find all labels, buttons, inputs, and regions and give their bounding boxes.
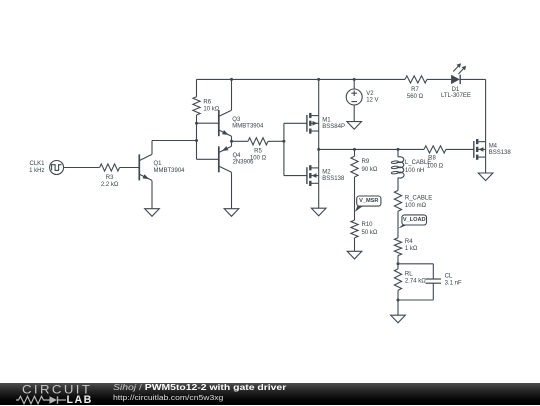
ground V2 bbox=[347, 122, 362, 130]
inductor L_CABLE bbox=[391, 157, 431, 178]
svg-text:R10: R10 bbox=[362, 222, 374, 228]
resistor RL bbox=[394, 269, 426, 290]
svg-text:MMBT3904: MMBT3904 bbox=[232, 124, 264, 130]
resistor R10 bbox=[351, 220, 378, 238]
wire R6 bottom to bases link bbox=[196, 115, 198, 159]
footer url bbox=[113, 393, 223, 402]
wire M2 source to ground bbox=[318, 183, 320, 208]
LED D1 bbox=[441, 63, 471, 99]
resistor R6 bbox=[193, 97, 220, 115]
svg-text:V2: V2 bbox=[366, 91, 374, 97]
svg-text:M1: M1 bbox=[322, 117, 331, 123]
junction R4 / RL / CL bbox=[397, 262, 400, 265]
junction R6 / Q3 base bbox=[195, 122, 198, 125]
wire node to R5 bbox=[232, 140, 249, 142]
ground Q4 collector bbox=[224, 209, 239, 217]
svg-text:Q3: Q3 bbox=[232, 117, 241, 123]
wire L to R_CABLE bbox=[397, 178, 399, 191]
svg-text:L_CABLE: L_CABLE bbox=[405, 160, 431, 166]
transistor Q3 bbox=[219, 110, 264, 136]
wire R10 to ground bbox=[354, 238, 356, 252]
svg-text:R9: R9 bbox=[362, 159, 370, 165]
svg-text:R6: R6 bbox=[203, 99, 211, 105]
wire bottom node to ground bbox=[397, 300, 399, 315]
wire Q1 emitter to ground bbox=[151, 181, 153, 209]
svg-text:3.1 nF: 3.1 nF bbox=[445, 281, 462, 287]
svg-text:12 V: 12 V bbox=[366, 98, 378, 104]
svg-text:90 kΩ: 90 kΩ bbox=[362, 167, 378, 173]
wire Q3 collector to rail bbox=[231, 79, 233, 110]
junction R5 / gate link bbox=[282, 140, 285, 143]
resistor R_CABLE bbox=[394, 190, 432, 211]
ground load bottom bbox=[391, 315, 406, 323]
svg-text:MMBT3904: MMBT3904 bbox=[154, 168, 186, 174]
svg-text:2.2 kΩ: 2.2 kΩ bbox=[101, 182, 119, 188]
svg-text:CLK1: CLK1 bbox=[29, 161, 45, 167]
svg-text:V_MSR: V_MSR bbox=[359, 198, 378, 204]
junction R9 branch bbox=[353, 148, 356, 151]
svg-text:V_LOAD: V_LOAD bbox=[403, 217, 426, 223]
svg-text:100 nH: 100 nH bbox=[405, 168, 424, 174]
footer title bbox=[113, 384, 286, 392]
svg-text:R_CABLE: R_CABLE bbox=[405, 195, 432, 201]
junction L_CABLE branch bbox=[397, 148, 400, 151]
svg-text:560 Ω: 560 Ω bbox=[407, 94, 424, 100]
wire M1 source to rail bbox=[318, 79, 320, 115]
svg-text:Q4: Q4 bbox=[233, 153, 242, 159]
wire R8 to M4 gate bbox=[446, 148, 474, 150]
transistor Q4 bbox=[219, 146, 254, 172]
mosfet M4 BSS138 bbox=[474, 139, 512, 160]
wire top +12V rail bbox=[197, 78, 486, 80]
wire R5 to gate link bbox=[268, 140, 284, 142]
svg-text:10 kΩ: 10 kΩ bbox=[203, 107, 219, 113]
wire R3 to Q1 base bbox=[120, 167, 140, 169]
ground R10 bbox=[347, 251, 362, 259]
wire Q1 collector bbox=[152, 141, 197, 155]
svg-text:2.74 kΩ: 2.74 kΩ bbox=[405, 278, 426, 284]
svg-text:BSS84P: BSS84P bbox=[322, 124, 345, 130]
wire gate link vertical bbox=[283, 123, 285, 175]
wire R4 to node bbox=[397, 256, 399, 264]
wire Q4 collector to ground bbox=[231, 172, 233, 208]
resistor R8 bbox=[424, 146, 446, 170]
svg-text:R4: R4 bbox=[405, 239, 413, 245]
wire R6 top bbox=[196, 79, 198, 96]
wire V2 to ground bbox=[353, 105, 355, 122]
wire M2 gate bbox=[284, 175, 307, 177]
junction RL / CL bottom bbox=[397, 299, 400, 302]
wire R9 to R10 bbox=[354, 177, 356, 220]
junction V2 / rail bbox=[353, 78, 356, 81]
resistor R3 bbox=[100, 164, 120, 188]
svg-text:1 kΩ: 1 kΩ bbox=[405, 246, 418, 252]
junction M1 source / rail bbox=[317, 78, 320, 81]
ground M2 source bbox=[311, 208, 326, 216]
junction Q1 collector bbox=[195, 139, 198, 142]
svg-text:D1: D1 bbox=[452, 87, 460, 93]
resistor R5 bbox=[248, 138, 268, 162]
svg-text:Q1: Q1 bbox=[154, 161, 163, 167]
ground Q1 emitter bbox=[145, 209, 160, 217]
junction Q3 collector / rail bbox=[230, 78, 233, 81]
wire M4 source to ground bbox=[485, 157, 487, 173]
wire CLK1 to R3 bbox=[64, 167, 100, 169]
wire to Q4 base bbox=[197, 158, 219, 160]
wire R_CABLE to R4 bbox=[397, 211, 399, 238]
svg-text:LTL-307EE: LTL-307EE bbox=[441, 93, 471, 99]
wire R9 branch bbox=[354, 149, 356, 156]
svg-text:RL: RL bbox=[405, 271, 413, 277]
svg-text:R3: R3 bbox=[106, 175, 114, 181]
wire CL bottom branch bbox=[398, 283, 433, 300]
voltage source V2 bbox=[346, 89, 378, 105]
wire Q4 emitter to node bbox=[231, 141, 233, 146]
wire CL top branch bbox=[398, 264, 433, 279]
resistor R7 bbox=[405, 76, 427, 100]
CircuitLab logo bbox=[22, 385, 97, 405]
svg-text:50 kΩ: 50 kΩ bbox=[362, 230, 378, 236]
wire L_CABLE branch bbox=[397, 149, 399, 157]
wire node to RL bbox=[397, 264, 399, 269]
svg-text:M4: M4 bbox=[489, 143, 498, 149]
flag V_MSR bbox=[355, 196, 381, 212]
resistor R9 bbox=[351, 156, 378, 177]
mosfet M2 BSS138 bbox=[307, 165, 345, 186]
svg-text:M2: M2 bbox=[322, 170, 331, 176]
mosfet M1 BSS84P bbox=[307, 113, 345, 134]
svg-text:100 Ω: 100 Ω bbox=[250, 155, 267, 161]
wire M1 drain to M2 drain bbox=[318, 131, 320, 168]
svg-text:1 kHz: 1 kHz bbox=[29, 168, 44, 174]
junction emitters node bbox=[230, 140, 233, 143]
wire Q3 emitter to node bbox=[231, 136, 233, 141]
junction M1-M2 drains bbox=[317, 148, 320, 151]
ground M4 source bbox=[478, 173, 493, 181]
svg-text:100 mΩ: 100 mΩ bbox=[405, 203, 427, 209]
svg-text:R5: R5 bbox=[254, 149, 262, 155]
svg-text:CL: CL bbox=[445, 274, 453, 280]
svg-text:BSS138: BSS138 bbox=[322, 176, 345, 182]
wire output node horizontal bbox=[319, 148, 424, 150]
svg-text:R7: R7 bbox=[411, 87, 419, 93]
flag V_LOAD bbox=[398, 215, 426, 229]
capacitor CL bbox=[426, 274, 462, 287]
wire to Q3 base bbox=[197, 122, 219, 124]
wire V2 top bbox=[353, 79, 355, 89]
wire M4 drain from rail bbox=[485, 79, 487, 141]
wire M1 gate bbox=[284, 122, 307, 124]
clock source CLK1 bbox=[29, 161, 63, 175]
resistor R4 bbox=[394, 238, 418, 256]
wire RL to bottom node bbox=[397, 290, 399, 300]
transistor Q1 bbox=[139, 154, 185, 180]
svg-text:BSS138: BSS138 bbox=[489, 150, 512, 156]
